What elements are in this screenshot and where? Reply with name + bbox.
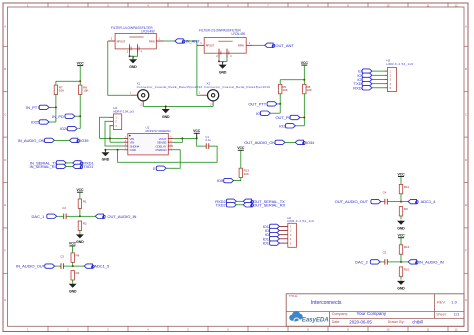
port IN_AUDIO_IN [408,260,444,265]
port IO23 [279,124,295,129]
header H4 pin 1 [109,117,117,120]
connector X1 pin 1 [130,92,138,96]
header H3 body [387,68,396,92]
port IO2 at H3 [357,77,372,82]
power VCC right [301,61,309,65]
svg-text:OUT_PD: OUT_PD [275,115,291,120]
wire IO26 to node [78,128,80,130]
svg-text:GND: GND [227,51,229,56]
ground GND at U2 [101,150,109,162]
wire R11 to node C [400,194,402,202]
U2 pin CDELAY [155,144,172,148]
svg-text:GND: GND [219,51,221,56]
svg-text:C5: C5 [383,251,387,255]
svg-text:12: 12 [455,3,458,7]
svg-text:VCC: VCC [77,61,85,65]
wire TXD2 to OUT_SERIAL_RX [236,204,244,206]
port IN_SERIAL_RX [30,164,67,169]
svg-text:IN_AUDIO_IN: IN_AUDIO_IN [419,260,444,265]
wire node D to IN_AUDIO_IN [401,261,408,263]
port IN_PTT [26,105,49,110]
port IO15 at H2 [263,224,280,229]
svg-text:OUT_PTT: OUT_PTT [248,102,266,107]
filter FL2 internal line [218,40,232,42]
svg-text:IN_PD: IN_PD [52,114,64,119]
svg-text:1/1: 1/1 [454,312,460,317]
svg-text:2020-06-05: 2020-06-05 [349,319,372,324]
resistor R8 10K [303,84,312,93]
svg-text:GND: GND [397,287,405,291]
wire R4 to node B [72,262,74,266]
svg-text:chibill: chibill [412,319,423,324]
power VCC adc4 [397,172,405,176]
svg-text:HDR-F-2.54_1x3: HDR-F-2.54_1x3 [113,110,134,114]
wire C3 to node B [64,265,73,267]
port EN at H3 [358,69,372,74]
wire FL2 RFIN to OUT_ANT [253,44,265,46]
svg-text:GND: GND [130,46,132,51]
title block grid [286,294,464,327]
svg-text:B: B [465,67,467,71]
junction OUT_PTT node [279,103,281,105]
svg-text:GND: GND [69,290,77,294]
wire VCC to R11 [400,177,402,185]
wire OUT_AUDIO_ON to IO34 [285,141,295,143]
title block title text Interconnects [311,300,342,306]
svg-text:OUT_ANT: OUT_ANT [275,43,294,48]
regulator U2 label [146,126,171,133]
wire R13 to IO5 [234,178,241,181]
wire IN_AUDIO_ON to IO39 [54,139,69,141]
port IO39 [69,138,89,143]
svg-text:HDR-F-2.54_1x6: HDR-F-2.54_1x6 [386,62,413,66]
filter FL2 gnd pin 2 [216,49,221,59]
wire FL1 gnd drop [130,56,134,57]
connector X1 label [137,81,203,89]
wire IO23 to node [295,125,304,127]
wire RXD0 to H3 pin 5 [372,87,385,89]
port OUT_AUDIO_IN [95,214,136,219]
connector X2 pin 1 [199,92,208,96]
header H3 label [386,59,413,67]
port IN_ANT [175,39,200,44]
header H2 pin 4 [279,238,292,241]
wire EN to H3 pin 1 [372,70,385,72]
header H2 pin 5 [279,242,292,245]
power VCC dac2 [397,234,405,238]
svg-text:10K: 10K [59,89,64,93]
svg-text:RFOUT: RFOUT [206,44,215,48]
wire C2 to node A [66,215,80,217]
filter FL1 gnd pin 4 [138,44,143,54]
wire TXD0 to H3 pin 4 [372,83,385,85]
port TXD1 [73,164,94,169]
svg-text:Date:: Date: [332,320,341,324]
junction coax shield gnd [165,105,167,107]
U2 pin PWRGD [156,148,173,152]
svg-text:ADC1_5: ADC1_5 [94,264,110,269]
wire FL1 gnd pins join [130,54,138,56]
port OUT_AUDIO_OUT [335,199,381,204]
svg-text:GND: GND [129,65,137,69]
wire H4 pin1 to U2 VIN [100,117,124,138]
wire DAC_1 to C2 [57,215,64,217]
port IN_PD [52,114,75,119]
wire node C to ADC1_4 [401,201,408,203]
capacitor C3 [60,255,64,269]
svg-text:R11: R11 [404,185,410,189]
U2 pin SHDN# [124,144,140,148]
ground GND between X1 X2 [162,106,170,118]
svg-text:LFCN-490: LFCN-490 [141,30,155,34]
resistor R2 [78,221,87,230]
port ADC1_4 [408,199,436,204]
wire R7 bottom to IN_PTT node [55,95,57,108]
power VCC at U2 [193,129,201,138]
svg-text:IN_AUDIO_ON: IN_AUDIO_ON [18,138,45,143]
wire C5 to node D [387,261,401,263]
wire node A to OUT_AUDIO_IN [80,215,95,217]
wire H4 pin3 to VIN net [109,126,111,143]
wire IN_SERIAL_RX to TXD1 [66,165,72,167]
junction FL2 gnd [218,60,220,62]
svg-text:10K: 10K [282,88,287,92]
svg-text:LFCN-490: LFCN-490 [231,32,245,36]
ground GND under FL2 [219,62,227,74]
wire FL2 gnd drop [222,61,224,62]
port IO5 [217,178,234,183]
wire VCC to R1 [79,192,81,199]
port EN [153,166,166,171]
wire OUT_PTT to node [277,103,280,105]
connector X2 coax symbol [208,90,219,101]
title block REV label [437,300,458,305]
svg-text:12: 12 [455,328,458,332]
svg-text:RFIN: RFIN [149,39,155,43]
ground GND dac1 [76,234,84,244]
connector X1 pin 2 [140,101,143,107]
capacitor C1 0.1u [205,135,211,149]
svg-text:Your Company: Your Company [357,311,387,316]
svg-text:Company:: Company: [332,312,348,316]
svg-text:IO25: IO25 [31,119,40,124]
svg-text:IN_SERIAL_RX: IN_SERIAL_RX [30,164,58,169]
wire R12 to node D [400,254,402,262]
port IO0 at H3 [357,73,372,78]
svg-text:R9: R9 [404,207,408,211]
filter FL1 pin 1 RFIN [149,38,164,44]
svg-text:C: C [465,112,467,116]
junction node B [72,265,74,267]
wire C4 to node C [387,201,401,203]
svg-text:G: G [465,298,467,302]
header H3 pin 4 [385,83,392,86]
wire IN_PD to node [75,115,80,117]
wire R6 top [79,81,81,85]
wire R6 bottom to IN_PD node [79,95,81,117]
header H4 pin 2 [109,121,117,124]
ground GND adc5 [69,283,77,293]
wire R10 to GND [400,276,402,279]
U2 pin VOUT [159,137,173,141]
wire IO4 to node [270,112,280,114]
ground GND dac2 [397,280,405,290]
wire VCC to R4 [71,246,73,253]
svg-text:HDR-F-2.54_1x6: HDR-F-2.54_1x6 [287,219,314,223]
resistor R9 [399,207,408,216]
svg-text:VCC: VCC [193,129,201,133]
svg-text:RFOUT: RFOUT [117,39,126,43]
port DAC_2 [355,260,380,265]
filter FILTER-2 label [199,28,245,36]
svg-text:E: E [465,203,467,207]
svg-text:Connector_Coaxial_RevE_Date15j: Connector_Coaxial_RevE_Date15jun2010 [137,85,203,89]
wire R1 to node A [79,208,81,216]
svg-text:VCC: VCC [76,188,84,192]
port TXD2 [216,202,237,207]
U2 pin SENSE [157,140,173,144]
port OUT_PTT [248,102,277,107]
wire VCC right down [303,65,305,80]
svg-text:GND: GND [219,70,227,74]
svg-text:IO34: IO34 [306,140,315,145]
svg-text:OUT_AUDIO_IN: OUT_AUDIO_IN [107,214,136,219]
wire U2 VIN2 tie [110,141,124,143]
svg-text:GND: GND [397,227,405,231]
wire H4 pin2 to U2 SHDN [105,121,124,146]
wire X1 X2 shields [143,105,213,107]
resistor R13 10K [239,168,249,177]
title block Sheet cell [436,312,460,317]
filter FL1 internal line [129,36,143,38]
port IO34 [295,140,315,145]
wire FL1 RFIN to IN_ANT [164,40,175,42]
wire VCC to C1 [197,138,207,146]
svg-text:OUT_AUDIO_OUT: OUT_AUDIO_OUT [335,199,369,204]
power VCC adc5 [69,242,77,246]
ground GND adc4 [397,220,405,230]
svg-text:TITLE:: TITLE: [289,294,298,298]
wire R7 top [55,81,57,85]
junction VCC right [303,79,305,81]
port OUT_AUDIO_ON [244,140,285,145]
wire U2 VOUT to VCC [173,137,197,139]
svg-text:10K: 10K [83,89,88,93]
wire VCC left to R7 [56,80,80,82]
header H4 pin 3 [109,125,117,128]
resistor R6 10K [79,85,89,94]
wire VCC right to R5 [280,79,304,81]
header H2 label [287,216,314,223]
lowpass filter FL2 body [204,38,246,54]
svg-text:0.1u: 0.1u [205,138,211,142]
svg-text:B: B [4,67,6,71]
svg-text:VCC: VCC [397,234,405,238]
svg-text:R4: R4 [76,253,80,257]
svg-text:IN_AUDIO_OUT: IN_AUDIO_OUT [16,264,46,269]
svg-text:C: C [4,112,6,116]
port ADC1_5 [84,264,110,269]
wire C1 to GND return [118,146,218,162]
svg-text:VCC: VCC [301,61,309,65]
port DAC_1 [32,214,57,219]
svg-text:VCC: VCC [397,172,405,176]
wire IO25 to node [49,121,56,123]
svg-text:10: 10 [387,328,390,332]
port TXD0 at H3 [354,81,372,86]
port IO25 [31,119,49,124]
svg-text:1.0: 1.0 [451,300,457,305]
wire VCC left down [79,66,81,82]
resistor R5 10K [279,84,288,93]
power VCC R13 [237,146,245,150]
resistor R7 10K [54,85,64,94]
svg-text:OUT_AUDIO_ON: OUT_AUDIO_ON [244,140,275,145]
wire R9 to GND [400,216,402,219]
svg-text:D: D [465,158,467,162]
U2 pin GND [124,148,137,152]
port IO16 at H2 [263,236,280,241]
svg-text:Drawn By:: Drawn By: [388,320,405,324]
wire R2 to GND [79,230,81,233]
svg-text:DAC_2: DAC_2 [355,260,368,265]
svg-text:OUT_SERIAL_RX: OUT_SERIAL_RX [253,202,285,207]
svg-text:TXD1: TXD1 [83,164,94,169]
filter FL2 pin 3 RFOUT [198,42,215,48]
resistor R1 [78,199,87,208]
port IO5 at H2 [265,228,280,233]
title block Company row [332,311,387,316]
wire IN_SERIAL_TX to RXD1 [66,162,72,164]
resistor R10 [399,267,409,276]
junction VIN net [109,137,111,139]
svg-text:IN_ANT: IN_ANT [186,39,201,44]
svg-text:IO39: IO39 [80,138,89,143]
connector X2 label [204,81,270,89]
svg-text:MCP1727-3302E/SN: MCP1727-3302E/SN [146,129,171,133]
wire IN_AUDIO_OUT to C3 [55,265,61,267]
port OUT_PD [275,115,300,120]
U2 pin VIN 2 [124,140,134,144]
junction node C [400,201,402,203]
wire SENSE tie [173,138,182,142]
U2 pin VIN 1 [124,137,134,141]
connector X2 pin 2 [210,101,213,107]
wire R8 bottom to OUT_PD node [303,94,305,118]
wire VCC to R12 [400,238,402,245]
wire FL1 RFOUT down to X1 [108,41,131,95]
junction U2 GND return [117,149,119,151]
wire OUT_AUDIO_OUT to C4 [381,201,385,203]
header H2 pin 2 [279,230,292,233]
port IN_AUDIO_OUT [16,264,55,269]
power VCC dac1 [76,188,84,192]
svg-text:D: D [4,158,6,162]
svg-text:DAC_1: DAC_1 [32,214,45,219]
port IN_SERIAL_TX [30,160,66,165]
junction node D [400,261,402,263]
resistor R4 [71,253,80,262]
svg-text:PWRGD: PWRGD [156,148,168,152]
svg-text:10K: 10K [244,172,249,176]
svg-text:GND: GND [102,158,110,162]
svg-text:R2: R2 [83,221,87,225]
svg-text:10K: 10K [307,88,312,92]
svg-text:R10: R10 [404,267,410,271]
regulator U2 body [128,134,169,155]
svg-text:GND: GND [76,240,84,244]
port IO17 at H2 [263,241,280,246]
svg-text:Sheet:: Sheet: [436,313,446,317]
filter FL2 pin 1 RFIN [238,42,253,48]
EasyEDA logo [289,311,329,324]
port RXD2 [215,199,236,204]
junction node A [79,215,81,217]
lowpass filter FL1 body [115,33,156,49]
svg-text:ADC1_4: ADC1_4 [421,199,437,204]
svg-text:11: 11 [427,3,430,7]
header H2 pin 1 [279,226,292,229]
wire U2 GND left [105,149,123,151]
title block Date row [332,319,423,324]
header H4 label [113,106,134,113]
header H3 pin 1 [385,70,392,73]
wire OUT_PD node down to IO23 [303,118,305,126]
junction IN_PTT node [55,106,57,108]
svg-text:GND: GND [130,148,137,152]
resistor R12 [399,245,409,254]
svg-text:C2: C2 [62,206,66,210]
power VCC left [77,61,85,65]
junction U2 GND sym [104,149,106,151]
wire IN_PTT to node [49,106,56,108]
wire R5 top [279,80,281,85]
header H2 pin 3 [279,234,292,237]
svg-text:R12: R12 [404,245,410,249]
svg-text:C4: C4 [383,190,387,194]
svg-text:GND: GND [162,115,170,119]
wire IO0 to H3 pin 2 [372,74,385,76]
wire R8 top [303,80,305,85]
wire R5 bottom to OUT_PTT node [279,94,281,104]
port IO4 [256,111,270,116]
wire VCC to R13 [240,150,242,168]
junction VCC U2 [196,137,198,139]
svg-text:Interconnects: Interconnects [311,300,342,306]
header H3 pin 5 [385,87,392,90]
wire FL2 gnd pins join [219,58,227,61]
svg-text:REV:: REV: [437,300,446,305]
port IO26 [60,126,77,131]
svg-text:R3: R3 [76,271,80,275]
capacitor C5 [383,251,388,265]
svg-text:VCC: VCC [69,242,77,246]
header H3 pin 2 [385,75,392,78]
header H4 body [113,114,121,130]
filter FL2 gnd pin 4 [227,49,232,59]
ground GND under FL1 [129,57,137,69]
port OUT_SERIAL_RX [243,202,285,207]
capacitor C2 [62,206,66,219]
wire node B to ADC1_5 [73,265,84,267]
header H2 body [288,223,297,247]
wire FL2 RFOUT down to X2 [197,45,200,95]
junction VOUT-SENSE [181,137,183,139]
title block TITLE label [289,294,298,298]
wire IN_PD node down to IO26 [79,116,81,128]
filter FL1 gnd pin 2 [127,44,132,54]
svg-text:A: A [4,25,6,29]
